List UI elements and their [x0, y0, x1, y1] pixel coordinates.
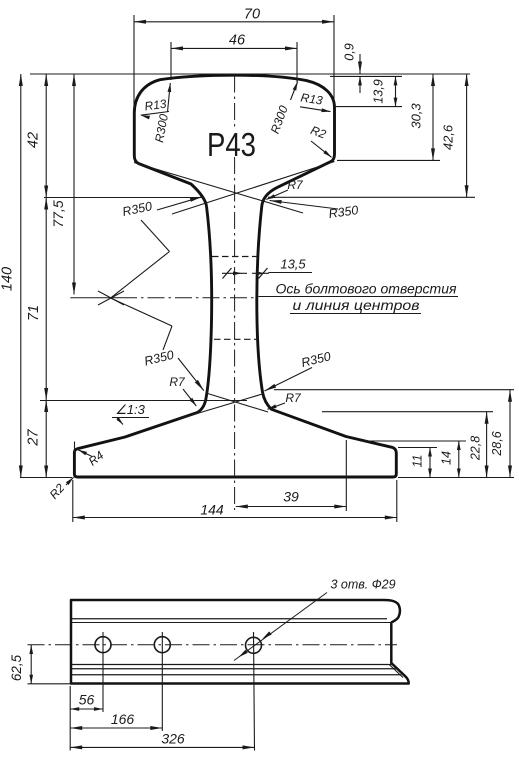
side view foot edge line 2	[71, 668, 396, 670]
dimension 28,6	[490, 390, 512, 478]
dimension 71	[26, 198, 48, 401]
bolt axis note line 1	[258, 282, 458, 297]
svg-text:27: 27	[26, 429, 42, 447]
extension line 11 level	[398, 447, 437, 449]
dimension 42	[26, 74, 49, 198]
left foot corner extension	[74, 442, 76, 453]
dimension 56	[70, 692, 103, 711]
bolt hole hidden edge bottom	[214, 338, 258, 340]
dimension 166	[70, 711, 162, 730]
svg-text:11: 11	[411, 455, 425, 468]
svg-text:∠1:3: ∠1:3	[115, 402, 145, 417]
radius R13 left	[141, 97, 169, 120]
leader to arc center upper	[111, 220, 170, 298]
foot top line left	[40, 400, 247, 402]
svg-text:166: 166	[111, 711, 135, 727]
radius R350 lower right	[265, 349, 333, 391]
hole diameter callout	[234, 578, 396, 661]
svg-text:39: 39	[283, 489, 299, 505]
dimension 22,8	[469, 412, 489, 478]
bolt hole 3	[246, 637, 262, 653]
svg-text:14: 14	[440, 451, 454, 465]
svg-text:62,5: 62,5	[9, 654, 24, 681]
dimension 30,3	[409, 74, 436, 160]
rail side view outline	[71, 600, 409, 684]
side view foot edge line 3	[71, 674, 401, 676]
side view foot edge line 1	[71, 664, 393, 666]
svg-text:70: 70	[244, 7, 260, 23]
dimension 62,5	[9, 645, 70, 684]
svg-text:13,9: 13,9	[372, 79, 386, 103]
extension line 30.3 level	[337, 159, 440, 161]
head slope construction line left	[134, 163, 303, 214]
bolt hole 3 center line	[254, 632, 255, 751]
dimension 70	[134, 7, 334, 116]
svg-text:77,5: 77,5	[50, 200, 66, 227]
radius R350 upper left	[121, 197, 202, 219]
svg-text:Ось болтового отверстия: Ось болтового отверстия	[276, 282, 458, 297]
bolt hole axis center mark	[98, 291, 124, 305]
dimension 140	[0, 74, 23, 478]
svg-text:42,6: 42,6	[441, 124, 456, 150]
svg-text:28,6: 28,6	[490, 431, 504, 456]
svg-text:56: 56	[79, 692, 95, 708]
radius R2 head right	[309, 123, 332, 157]
radius R350 lower left	[143, 348, 204, 391]
bolt hole hidden edge top	[212, 256, 257, 258]
dimension 27	[26, 400, 49, 478]
side view head edge line 2	[71, 622, 391, 624]
radius R7 upper right	[266, 178, 304, 200]
extension line 28.6 level	[274, 389, 514, 391]
extension line 0.9 level	[330, 75, 402, 77]
bolt hole 1 center line	[102, 632, 104, 712]
foot slope construction line right	[206, 393, 268, 412]
extension line 22.8 level	[322, 411, 493, 413]
svg-text:71: 71	[26, 305, 42, 321]
dimension 326	[70, 731, 254, 750]
dimension 42,6	[441, 74, 469, 197]
dimension 46	[171, 33, 297, 83]
svg-text:326: 326	[161, 731, 185, 747]
leader to arc center lower	[111, 298, 172, 350]
svg-text:42: 42	[26, 132, 42, 148]
side view left extension	[69, 686, 71, 751]
radius R300 left	[152, 83, 171, 144]
radius R13 right	[300, 90, 331, 112]
bottom reference line right	[398, 477, 514, 479]
extension line 13.9 level	[336, 106, 402, 108]
side view head edge line 1	[71, 618, 387, 620]
svg-text:и линия центров: и линия центров	[293, 298, 420, 313]
slope label 1:3	[112, 402, 149, 425]
bolt axis note line 2	[290, 298, 421, 314]
svg-text:30,3: 30,3	[409, 103, 424, 129]
extension line 14 level	[360, 440, 466, 442]
bolt hole 2	[154, 637, 170, 653]
side view foot flare inner line	[389, 665, 403, 678]
head bottom line left	[44, 197, 204, 199]
bolt hole 1	[95, 637, 111, 653]
dimension 14	[440, 441, 461, 478]
radius R7 lower right	[268, 391, 302, 409]
vertical center line of rail	[234, 76, 236, 511]
dimension 144	[73, 480, 397, 522]
top reference line	[30, 73, 470, 75]
radius R2 foot	[47, 477, 74, 501]
svg-text:0,9: 0,9	[343, 43, 357, 60]
radius R7 lower left	[169, 375, 196, 406]
bolt hole 2 center line	[161, 632, 163, 731]
radius R350 upper right	[270, 200, 360, 221]
bolt hole axis line	[70, 297, 257, 299]
radius R4	[78, 448, 107, 469]
dimension 11	[411, 448, 432, 478]
bottom reference line left	[20, 477, 72, 479]
dimension 77,5	[50, 74, 76, 295]
svg-text:140: 140	[0, 267, 16, 291]
dimension 13,9	[372, 76, 398, 106]
head slope construction line right	[172, 162, 335, 215]
svg-text:3 отв. Ф29: 3 отв. Ф29	[330, 578, 395, 592]
dimension 0,9	[343, 43, 363, 93]
svg-text:Р43: Р43	[207, 126, 256, 163]
svg-text:144: 144	[200, 502, 224, 518]
radius R300 right	[268, 82, 298, 136]
head bottom line right	[268, 196, 475, 198]
dimension 39	[236, 440, 346, 511]
svg-text:R7: R7	[287, 178, 304, 192]
svg-text:46: 46	[229, 33, 246, 49]
svg-text:13,5: 13,5	[280, 257, 306, 272]
dimension 13,5	[222, 257, 312, 279]
svg-text:22,8: 22,8	[469, 436, 483, 461]
svg-text:R7: R7	[285, 391, 302, 405]
rail cross-section outline	[74, 75, 396, 477]
svg-text:R7: R7	[169, 375, 186, 389]
side view hole axis line	[28, 644, 398, 646]
foot slope construction line left	[177, 394, 264, 420]
